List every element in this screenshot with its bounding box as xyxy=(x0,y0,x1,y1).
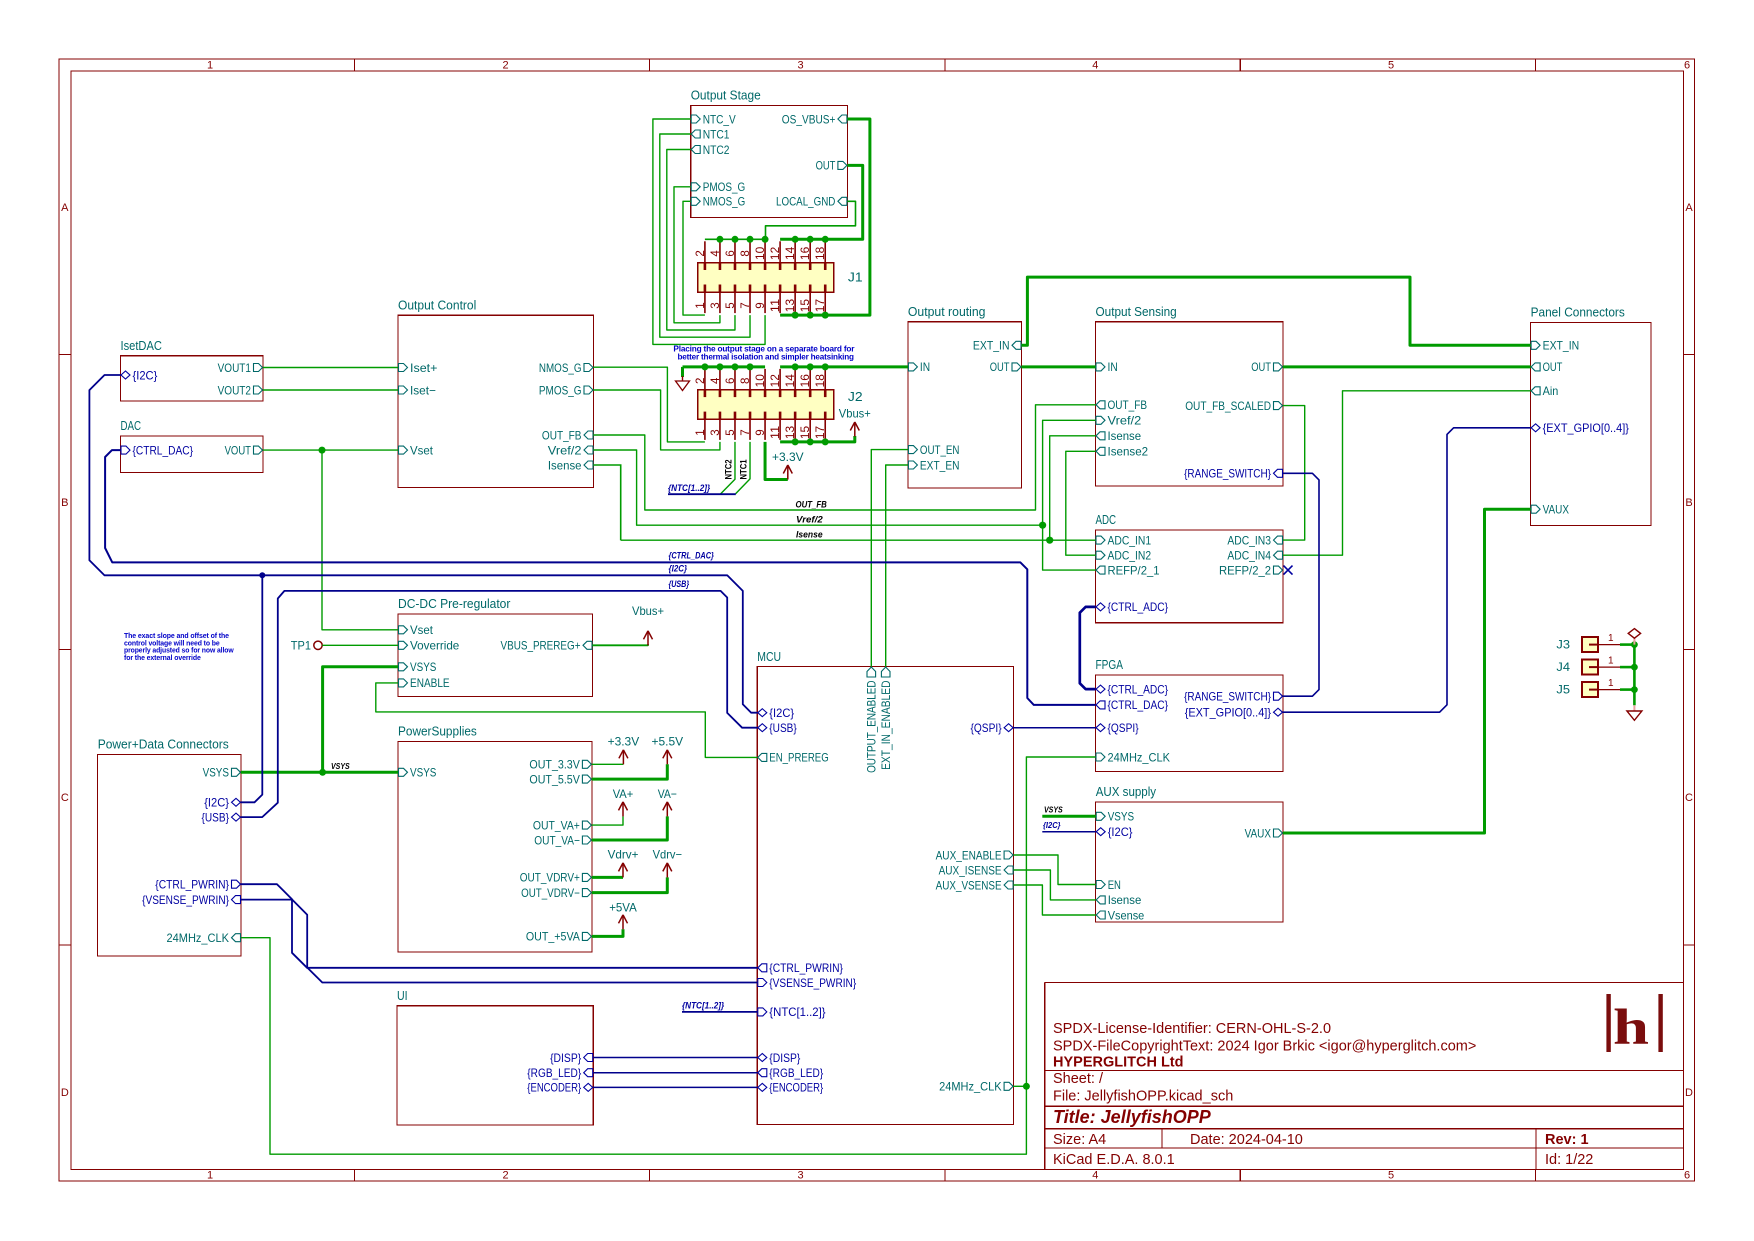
sheet pin {I2C} (AUX) xyxy=(1096,828,1105,836)
svg-text:6: 6 xyxy=(725,250,737,256)
svg-text:6: 6 xyxy=(1684,1170,1690,1182)
sheet pin VSYS (DC-DC) xyxy=(399,663,408,671)
svg-text:NMOS_G: NMOS_G xyxy=(703,195,746,209)
junction J1 bottom pin13 xyxy=(792,312,799,319)
svg-text:PowerSupplies: PowerSupplies xyxy=(398,725,477,739)
svg-text:1: 1 xyxy=(207,60,213,72)
wire Vref/2 net xyxy=(594,450,1043,525)
sheet pin Isense2 xyxy=(1096,447,1105,455)
junction J2 top pin2 xyxy=(701,363,708,370)
bus {I2C} stub at AUX supply xyxy=(1042,831,1095,833)
ground symbol at J2 xyxy=(682,376,684,381)
svg-text:+3.3V: +3.3V xyxy=(608,735,640,749)
svg-text:IsetDAC: IsetDAC xyxy=(121,339,162,353)
wire 24MHz_CLK stub to MCU xyxy=(1014,1085,1027,1087)
connector J5 xyxy=(1582,682,1598,697)
svg-text:control voltage will need to b: control voltage will need to be xyxy=(124,640,220,647)
junction J1 bottom pin15 xyxy=(807,312,814,319)
junction Vref/2 xyxy=(1039,522,1046,529)
svg-text:10: 10 xyxy=(755,247,767,260)
svg-text:Power+Data Connectors: Power+Data Connectors xyxy=(98,738,229,752)
svg-text:{EXT_GPIO[0..4]}: {EXT_GPIO[0..4]} xyxy=(1543,421,1629,435)
svg-text:VSYS: VSYS xyxy=(203,766,229,780)
sheet pin {NTC[1..2]} (MCU) xyxy=(758,1008,767,1016)
sheet MCU xyxy=(757,667,1013,1125)
svg-text:5: 5 xyxy=(1388,60,1394,72)
power symbol +5VA xyxy=(622,916,624,930)
svg-text:properly adjusted so for now a: properly adjusted so for now allow xyxy=(124,648,234,655)
sheet pin OUT (Output Stage) xyxy=(838,161,847,169)
svg-text:15: 15 xyxy=(800,299,812,312)
junction VSYS xyxy=(319,769,326,776)
bus {DISP} xyxy=(593,1057,757,1059)
sheet UI xyxy=(397,1006,593,1125)
svg-text:EN_PREREG: EN_PREREG xyxy=(769,751,828,765)
svg-text:OUT: OUT xyxy=(1543,360,1563,374)
sheet pin LOCAL_GND xyxy=(838,197,847,205)
sheet Output Stage xyxy=(691,106,848,218)
wire DAC VOUT to Vset xyxy=(263,449,398,451)
svg-text:C: C xyxy=(1685,792,1693,804)
svg-text:D: D xyxy=(61,1087,69,1099)
sheet pin VOUT (DAC) xyxy=(254,446,263,454)
svg-text:Vref/2: Vref/2 xyxy=(1108,414,1142,428)
wire VSYS branch thick to DC-DC xyxy=(323,667,398,773)
svg-text:OUT_FB: OUT_FB xyxy=(542,428,582,442)
svg-text:{USB}: {USB} xyxy=(769,721,797,735)
junction J1 top pin8 xyxy=(747,236,754,243)
wire EXT_IN thick xyxy=(1022,277,1531,345)
sheet pin NTC_V xyxy=(691,115,700,123)
svg-text:7: 7 xyxy=(740,302,752,308)
bus junction {I2C} xyxy=(259,572,265,578)
svg-text:DAC: DAC xyxy=(121,419,142,433)
svg-text:+3.3V: +3.3V xyxy=(772,450,804,464)
svg-text:J2: J2 xyxy=(848,389,863,404)
sheet pin IN (Output routing) xyxy=(908,363,917,371)
wire EXT_IN_ENABLED to EXT_EN xyxy=(886,465,908,667)
svg-text:NTC2: NTC2 xyxy=(703,143,730,157)
svg-text:Isense: Isense xyxy=(1108,893,1142,907)
svg-text:PMOS_G: PMOS_G xyxy=(539,383,582,397)
svg-text:ADC_IN3: ADC_IN3 xyxy=(1227,533,1271,547)
svg-text:OUT: OUT xyxy=(816,159,836,173)
svg-text:{DISP}: {DISP} xyxy=(550,1051,581,1065)
svg-text:for the external override: for the external override xyxy=(124,655,201,662)
sheet pin {CTRL_DAC} (DAC) xyxy=(121,446,130,454)
sheet pin Vref/2 (Output Sensing) xyxy=(1096,416,1105,424)
svg-text:Sheet: /: Sheet: / xyxy=(1053,1071,1104,1087)
junction J2 top pin14 xyxy=(792,363,799,370)
svg-text:{I2C}: {I2C} xyxy=(1108,825,1133,839)
wire TP1 to Voverride xyxy=(322,644,398,646)
sheet pin EXT_IN (Panel) xyxy=(1531,341,1540,349)
bus {VSENSE_PWRIN} xyxy=(241,900,757,983)
svg-text:6: 6 xyxy=(1684,60,1690,72)
svg-text:10: 10 xyxy=(755,374,767,387)
sheet pin Vset (Output Control) xyxy=(399,446,408,454)
sheet pin NMOS_G (Output Stage) xyxy=(691,197,700,205)
wire Vref/2 branch down to REFP/2_1 xyxy=(1043,525,1096,570)
wire Isense net xyxy=(621,539,1096,541)
sheet pin {CTRL_ADC} (ADC) xyxy=(1096,603,1105,611)
sheet pin {EXT_GPIO[0..4]} (Panel) xyxy=(1531,424,1540,432)
svg-text:OUT_FB_SCALED: OUT_FB_SCALED xyxy=(1185,399,1271,413)
sheet pin EN (AUX) xyxy=(1096,881,1105,889)
svg-text:3: 3 xyxy=(797,1170,803,1182)
sheet pin {QSPI} (FPGA) xyxy=(1096,724,1105,732)
junction J1 top pin4 xyxy=(716,236,723,243)
svg-text:B: B xyxy=(1685,497,1692,509)
svg-text:24MHz_CLK: 24MHz_CLK xyxy=(1108,750,1171,764)
sheet pin PMOS_G (Output Control) xyxy=(584,386,593,394)
svg-text:{ENCODER}: {ENCODER} xyxy=(527,1081,581,1095)
wire NMOS_G(OS) to J1 pin1 xyxy=(683,201,705,315)
sheet pin EN_PREREG xyxy=(758,753,767,761)
svg-text:{USB}: {USB} xyxy=(669,579,690,589)
svg-text:{ENCODER}: {ENCODER} xyxy=(769,1081,823,1095)
svg-text:16: 16 xyxy=(800,374,812,387)
wire ENABLE to EN_PREREG xyxy=(376,683,758,758)
svg-text:{VSENSE_PWRIN}: {VSENSE_PWRIN} xyxy=(769,976,856,990)
wire OUT_VDRV+ to Vdrv+ thick xyxy=(592,876,623,879)
svg-text:Vref/2: Vref/2 xyxy=(548,443,582,457)
connector J2 body xyxy=(698,390,834,420)
junction J1 top pin6 xyxy=(731,236,738,243)
svg-text:Isense: Isense xyxy=(548,458,582,472)
svg-text:Vdrv−: Vdrv− xyxy=(653,848,682,862)
svg-text:11: 11 xyxy=(770,299,782,312)
svg-text:The exact slope and offset of: The exact slope and offset of the xyxy=(124,633,229,640)
power symbol VA+ xyxy=(622,803,624,817)
junction J3 xyxy=(1631,641,1638,648)
svg-text:VSYS: VSYS xyxy=(1044,805,1063,815)
sheet pin IN (Output Sensing) xyxy=(1096,363,1105,371)
sheet pin REFP/2_2 xyxy=(1274,566,1283,574)
junction J1 top pin16 xyxy=(807,236,814,243)
wire J2 pin9 to +3.3V thick xyxy=(765,442,788,480)
svg-text:Vbus+: Vbus+ xyxy=(839,407,871,421)
junction J2 top pin4 xyxy=(716,363,723,370)
sheet pin AUX_ISENSE xyxy=(1004,866,1013,874)
sheet pin NTC2 (Output Stage) xyxy=(691,146,700,154)
wire OUT(OS) thick to J1 pins 12-18 xyxy=(780,165,863,239)
svg-text:OUTPUT_ENABLED: OUTPUT_ENABLED xyxy=(865,680,879,773)
svg-text:7: 7 xyxy=(740,429,752,435)
svg-text:Id: 1/22: Id: 1/22 xyxy=(1545,1152,1593,1168)
svg-text:J5: J5 xyxy=(1556,683,1570,697)
sheet pin VAUX (Panel) xyxy=(1531,505,1540,513)
junction J2 top pin18 xyxy=(822,363,829,370)
svg-text:Output Control: Output Control xyxy=(398,298,476,312)
svg-text:OUT_EN: OUT_EN xyxy=(920,443,960,457)
svg-text:J3: J3 xyxy=(1556,638,1570,652)
svg-text:OUT_FB: OUT_FB xyxy=(796,499,827,510)
svg-text:Size: A4: Size: A4 xyxy=(1053,1132,1106,1148)
svg-text:13: 13 xyxy=(785,426,797,439)
sheet pin {RGB_LED} (UI) xyxy=(584,1069,593,1077)
svg-text:Iset+: Iset+ xyxy=(410,361,437,375)
sheet pin ENABLE xyxy=(399,679,408,687)
sheet pin OUT_FB (Output Control) xyxy=(584,431,593,439)
svg-text:File: JellyfishOPP.kicad_sch: File: JellyfishOPP.kicad_sch xyxy=(1053,1089,1233,1105)
power symbol +3.3V at PowerSupplies xyxy=(622,751,624,765)
svg-text:Output Stage: Output Stage xyxy=(691,89,761,103)
bus {CTRL_ADC} xyxy=(1080,607,1096,689)
svg-text:NTC2: NTC2 xyxy=(724,459,734,479)
svg-text:AUX supply: AUX supply xyxy=(1096,785,1157,799)
bus {CTRL_DAC} from DAC to FPGA xyxy=(105,450,1095,705)
svg-text:OUT: OUT xyxy=(990,360,1010,374)
svg-text:5: 5 xyxy=(725,429,737,435)
sheet pin OUT (Output Sensing) xyxy=(1274,363,1283,371)
svg-text:D: D xyxy=(1685,1087,1693,1099)
sheet pin Vset (DC-DC) xyxy=(399,626,408,634)
svg-text:VAUX: VAUX xyxy=(1245,826,1271,840)
svg-text:{CTRL_DAC}: {CTRL_DAC} xyxy=(1108,698,1169,712)
svg-text:1: 1 xyxy=(1608,678,1614,689)
bus {USB} from Power+Data to MCU xyxy=(241,591,757,817)
connector J4 xyxy=(1582,660,1598,675)
power symbol Vbus+ at DC-DC xyxy=(647,632,649,646)
svg-text:EN: EN xyxy=(1108,878,1121,892)
sheet pin EXT_IN (Output routing) xyxy=(1012,341,1021,349)
sheet pin AUX_VSENSE xyxy=(1004,881,1013,889)
bus {CTRL_PWRIN} xyxy=(241,884,757,968)
sheet pin {CTRL_DAC} (FPGA) xyxy=(1096,701,1105,709)
wire 24MHz_CLK net xyxy=(241,757,1096,1154)
test point TP1 xyxy=(314,641,322,649)
sheet pin 24MHz_CLK (Power+Data) xyxy=(232,934,241,942)
sheet pin NMOS_G (Output Control) xyxy=(584,364,593,372)
svg-text:OUT: OUT xyxy=(1251,360,1271,374)
sheet pin VSYS (Power+Data) xyxy=(232,768,241,776)
svg-text:SPDX-FileCopyrightText: 2024 I: SPDX-FileCopyrightText: 2024 Igor Brkic … xyxy=(1053,1039,1476,1055)
svg-text:VOUT2: VOUT2 xyxy=(218,383,252,397)
sheet pin VBUS_PREREG+ xyxy=(583,641,592,649)
sheet ADC xyxy=(1096,530,1284,623)
svg-text:ADC_IN4: ADC_IN4 xyxy=(1227,549,1271,563)
connector J3 xyxy=(1582,637,1598,652)
sheet pin OUT_VDRV- xyxy=(582,889,591,897)
svg-text:IN: IN xyxy=(1108,360,1118,374)
svg-text:2: 2 xyxy=(503,60,509,72)
sheet pin Voverride xyxy=(399,641,408,649)
sheet pin {ENCODER} (UI) xyxy=(584,1083,593,1091)
svg-text:REFP/2_2: REFP/2_2 xyxy=(1219,563,1271,577)
wire VBUS_PREREG+ to Vbus+ xyxy=(593,644,649,645)
svg-text:{CTRL_DAC}: {CTRL_DAC} xyxy=(669,551,715,561)
bus {ENCODER} xyxy=(593,1086,757,1088)
svg-text:Vset: Vset xyxy=(410,623,434,637)
sheet pin EXT_EN xyxy=(908,461,917,469)
wire NTC2 to J1 pin5 xyxy=(667,150,735,331)
sheet pin REFP/2_1 xyxy=(1096,566,1105,574)
wire OUT_5.5V to +5.5V thick xyxy=(592,764,667,779)
svg-text:12: 12 xyxy=(770,374,782,387)
connector J2 top pins 2-18 xyxy=(704,369,706,390)
sheet pin OUT_+5VA xyxy=(582,932,591,940)
sheet pin NTC1 (Output Stage) xyxy=(691,130,700,138)
sheet pin OUTPUT_ENABLED xyxy=(867,667,876,677)
svg-text:Voverride: Voverride xyxy=(410,639,460,653)
sheet pin OUT (Panel) xyxy=(1531,363,1540,371)
svg-text:NTC1: NTC1 xyxy=(739,459,749,479)
svg-text:12: 12 xyxy=(770,247,782,260)
svg-text:{CTRL_ADC}: {CTRL_ADC} xyxy=(1108,600,1169,614)
svg-text:EXT_IN: EXT_IN xyxy=(1543,339,1580,353)
svg-text:Vref/2: Vref/2 xyxy=(796,514,823,525)
svg-text:VSYS: VSYS xyxy=(331,761,350,771)
svg-text:4: 4 xyxy=(710,377,722,384)
svg-text:B: B xyxy=(61,497,68,509)
svg-text:{EXT_GPIO[0..4]}: {EXT_GPIO[0..4]} xyxy=(1185,706,1271,720)
sheet DC-DC Pre-regulator xyxy=(398,614,593,697)
wire NTC1 to J1 pin7 xyxy=(660,134,750,337)
svg-text:IN: IN xyxy=(920,360,930,374)
svg-text:VAUX: VAUX xyxy=(1543,503,1569,517)
wire NTC_V to J1 pin9 xyxy=(653,119,765,344)
svg-text:AUX_ENABLE: AUX_ENABLE xyxy=(936,848,1002,862)
svg-text:2: 2 xyxy=(695,378,707,384)
svg-text:Vdrv+: Vdrv+ xyxy=(608,848,639,862)
junction J1 top pin14 xyxy=(792,236,799,243)
sheet pin {DISP} (UI) xyxy=(584,1054,593,1062)
wire routing OUT to sensing IN thick xyxy=(1022,365,1096,368)
svg-text:MCU: MCU xyxy=(757,650,781,664)
svg-text:OUT_3.3V: OUT_3.3V xyxy=(529,758,580,772)
wire Vset branch to DC-DC xyxy=(322,450,398,630)
sheet pin 24MHz_CLK (MCU) xyxy=(1004,1082,1013,1090)
junction J2 bottom pin15 xyxy=(807,438,814,445)
svg-text:Isense2: Isense2 xyxy=(1108,445,1149,459)
bus {EXT_GPIO[0..4]} xyxy=(1283,428,1531,712)
svg-text:{CTRL_ADC}: {CTRL_ADC} xyxy=(1108,682,1169,696)
svg-text:3: 3 xyxy=(710,302,722,308)
svg-text:Vbus+: Vbus+ xyxy=(632,604,664,618)
svg-text:OUT_VA−: OUT_VA− xyxy=(534,833,580,847)
sheet pin {RANGE_SWITCH} (FPGA) xyxy=(1274,692,1283,700)
wire GND net vertical J3-J5 xyxy=(1633,645,1636,706)
svg-text:{QSPI}: {QSPI} xyxy=(971,721,1002,735)
svg-text:11: 11 xyxy=(770,426,782,439)
wire OS_VBUS+ thick to J1 pins 11-17 xyxy=(780,119,870,315)
wire NMOS_G(OC) to J2 pin1 xyxy=(594,367,705,442)
power symbol +3.3V at J2 xyxy=(787,466,789,480)
svg-text:DC-DC Pre-regulator: DC-DC Pre-regulator xyxy=(398,597,510,611)
svg-text:OUT_FB: OUT_FB xyxy=(1108,398,1148,412)
junction J2 top pin6 xyxy=(731,363,738,370)
svg-text:Rev: 1: Rev: 1 xyxy=(1545,1132,1589,1148)
svg-text:{I2C}: {I2C} xyxy=(204,796,229,810)
wire OUT_VA- to VA- thick xyxy=(592,816,667,840)
sheet pin {USB} (Power+Data) xyxy=(232,813,241,821)
svg-text:6: 6 xyxy=(725,378,737,384)
svg-text:1: 1 xyxy=(695,429,707,435)
sheet pin OUT_5.5V xyxy=(582,775,591,783)
junction J2 bottom pin13 xyxy=(792,438,799,445)
wire PMOS_G(OC) to J2 pin3 xyxy=(594,390,720,450)
no-connect X on REFP/2_2 xyxy=(1284,566,1293,575)
wire sensing OUT to Panel OUT thick xyxy=(1283,365,1531,368)
svg-text:VSYS: VSYS xyxy=(410,766,436,780)
svg-text:J4: J4 xyxy=(1556,660,1570,674)
title block outline xyxy=(1045,983,1684,1170)
wire OUT_3.3V to +3.3V xyxy=(592,763,624,765)
sheet pin VAUX (AUX) xyxy=(1274,829,1283,837)
sheet pin Isense (AUX) xyxy=(1096,896,1105,904)
sheet pin OUT (Output routing) xyxy=(1012,363,1021,371)
bus {NTC[1..2]} at J2 xyxy=(668,493,736,495)
svg-text:14: 14 xyxy=(785,373,797,387)
svg-text:Output Sensing: Output Sensing xyxy=(1096,305,1177,319)
wire OUT_VA+ to VA+ xyxy=(592,816,623,825)
svg-text:1: 1 xyxy=(695,302,707,308)
svg-text:REFP/2_1: REFP/2_1 xyxy=(1108,563,1160,577)
svg-text:PMOS_G: PMOS_G xyxy=(703,180,746,194)
bus {I2C} from Power+Data xyxy=(241,575,262,802)
svg-text:UI: UI xyxy=(397,989,408,1003)
svg-text:OS_VBUS+: OS_VBUS+ xyxy=(782,112,836,126)
sheet pin Iset- xyxy=(399,386,408,394)
sheet Output routing xyxy=(908,322,1022,488)
svg-text:NTC_V: NTC_V xyxy=(703,112,736,126)
wire J2 pin7 to NTC1 bus entry xyxy=(736,442,750,494)
svg-text:HYPERGLITCH Ltd: HYPERGLITCH Ltd xyxy=(1053,1055,1184,1071)
wire VOUT1 to Iset+ xyxy=(263,367,398,369)
svg-text:{NTC[1..2]}: {NTC[1..2]} xyxy=(682,1001,725,1011)
svg-text:{QSPI}: {QSPI} xyxy=(1108,721,1139,735)
svg-text:5: 5 xyxy=(1388,1170,1394,1182)
wire J2 GND top pins 2-10 thick xyxy=(683,365,766,368)
sheet Power+Data Connectors xyxy=(98,755,241,957)
junction J2 top pin16 xyxy=(807,363,814,370)
svg-text:Isense: Isense xyxy=(1108,429,1142,443)
svg-text:Ain: Ain xyxy=(1543,384,1559,398)
sheet pin 24MHz_CLK (FPGA) xyxy=(1096,753,1105,761)
svg-text:15: 15 xyxy=(800,426,812,439)
svg-text:16: 16 xyxy=(800,247,812,260)
junction 24MHz_CLK xyxy=(1023,1083,1030,1090)
svg-text:EXT_EN: EXT_EN xyxy=(920,458,960,472)
power symbol VA- xyxy=(666,803,668,817)
sheet DAC xyxy=(121,436,264,473)
junction DAC VOUT branch xyxy=(319,447,326,454)
junction J4 xyxy=(1631,664,1638,671)
svg-text:3: 3 xyxy=(797,60,803,72)
svg-text:13: 13 xyxy=(785,299,797,312)
svg-text:{RGB_LED}: {RGB_LED} xyxy=(769,1066,823,1080)
sheet FPGA xyxy=(1096,675,1284,772)
svg-text:A: A xyxy=(1685,202,1693,214)
sheet pin OUT_FB_SCALED xyxy=(1274,402,1283,410)
svg-text:Vsense: Vsense xyxy=(1108,908,1145,922)
svg-text:ADC_IN2: ADC_IN2 xyxy=(1108,549,1152,563)
sheet pin OUT_VA- xyxy=(582,836,591,844)
wire Isense branch up to Output Sensing xyxy=(1050,436,1096,540)
svg-text:8: 8 xyxy=(740,378,752,384)
sheet pin AUX_ENABLE xyxy=(1004,851,1013,859)
bus {QSPI} xyxy=(1014,727,1096,729)
svg-text:EXT_IN: EXT_IN xyxy=(973,339,1010,353)
connector J2 bottom pins 1-17 xyxy=(704,419,706,440)
svg-text:{VSENSE_PWRIN}: {VSENSE_PWRIN} xyxy=(142,893,229,907)
svg-text:Panel Connectors: Panel Connectors xyxy=(1531,306,1625,320)
svg-text:{DISP}: {DISP} xyxy=(769,1051,800,1065)
svg-text:AUX_ISENSE: AUX_ISENSE xyxy=(939,863,1002,877)
svg-text:{RGB_LED}: {RGB_LED} xyxy=(527,1066,581,1080)
svg-text:4: 4 xyxy=(1092,60,1098,72)
